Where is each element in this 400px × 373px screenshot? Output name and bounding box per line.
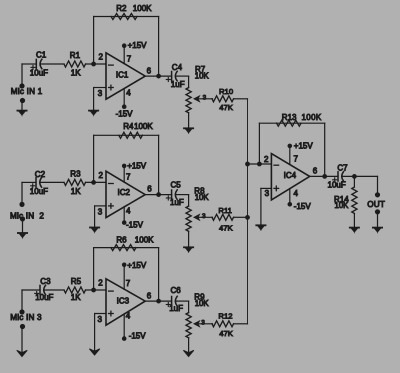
svg-text:7: 7	[127, 55, 132, 64]
svg-text:4: 4	[294, 189, 299, 198]
svg-text:R13: R13	[282, 113, 297, 122]
svg-text:1K: 1K	[71, 293, 81, 302]
svg-text:10K: 10K	[195, 193, 210, 202]
svg-text:3: 3	[201, 319, 205, 326]
svg-text:100K: 100K	[135, 235, 154, 244]
svg-text:47K: 47K	[219, 223, 234, 232]
svg-text:IC3: IC3	[117, 297, 130, 306]
svg-text:47K: 47K	[219, 329, 234, 338]
svg-text:R12: R12	[218, 312, 232, 321]
svg-text:IC1: IC1	[116, 71, 129, 80]
svg-text:10K: 10K	[335, 201, 350, 210]
svg-text:Mic IN 3: Mic IN 3	[10, 313, 42, 322]
svg-text:C4: C4	[172, 63, 183, 72]
svg-text:+15V: +15V	[127, 261, 147, 270]
svg-text:R2: R2	[116, 4, 127, 13]
svg-text:2: 2	[99, 53, 104, 62]
svg-text:C5: C5	[171, 180, 182, 189]
svg-text:10uF: 10uF	[30, 68, 48, 77]
svg-text:2: 2	[264, 155, 269, 164]
svg-text:IC2: IC2	[118, 188, 131, 197]
svg-text:100K: 100K	[133, 4, 152, 13]
svg-text:3: 3	[98, 315, 103, 324]
svg-text:-15V: -15V	[126, 221, 144, 230]
svg-text:IC4: IC4	[284, 171, 297, 180]
svg-text:C7: C7	[337, 163, 348, 172]
svg-text:-15V: -15V	[129, 332, 147, 341]
svg-text:R3: R3	[70, 170, 81, 179]
svg-text:1K: 1K	[71, 69, 81, 78]
svg-text:R11: R11	[218, 206, 232, 215]
svg-text:R6: R6	[116, 235, 127, 244]
svg-text:6: 6	[313, 167, 318, 176]
svg-text:3: 3	[203, 94, 207, 101]
svg-text:6: 6	[147, 292, 152, 301]
svg-text:1uF: 1uF	[171, 80, 185, 89]
svg-text:-15V: -15V	[294, 202, 312, 211]
svg-text:R1: R1	[70, 51, 81, 60]
svg-text:1uF: 1uF	[170, 198, 184, 207]
svg-text:C6: C6	[171, 286, 182, 295]
svg-text:3: 3	[98, 89, 103, 98]
svg-text:100K: 100K	[134, 122, 153, 131]
svg-text:C2: C2	[35, 170, 46, 179]
svg-text:+15V: +15V	[294, 141, 314, 150]
svg-text:4: 4	[126, 312, 131, 321]
svg-text:C3: C3	[40, 277, 51, 286]
svg-text:+15V: +15V	[128, 41, 148, 50]
svg-text:C1: C1	[36, 51, 47, 60]
svg-text:10uF: 10uF	[35, 293, 53, 302]
svg-text:100K: 100K	[302, 113, 322, 122]
svg-text:3: 3	[265, 189, 270, 198]
svg-text:3: 3	[98, 207, 103, 216]
svg-text:4: 4	[126, 207, 131, 216]
svg-text:+15V: +15V	[127, 161, 147, 170]
svg-text:Mic IN 2: Mic IN 2	[10, 211, 44, 220]
svg-text:47K: 47K	[219, 103, 234, 112]
svg-text:10K: 10K	[195, 299, 210, 308]
svg-text:R4: R4	[123, 122, 134, 131]
svg-text:R10: R10	[219, 87, 233, 96]
svg-text:Mic IN 1: Mic IN 1	[11, 87, 43, 96]
svg-text:-15V: -15V	[116, 110, 134, 119]
svg-text:1uF: 1uF	[169, 304, 183, 313]
svg-text:R5: R5	[71, 277, 82, 286]
svg-text:2: 2	[98, 278, 103, 287]
svg-text:10uF: 10uF	[328, 180, 346, 189]
svg-text:10uF: 10uF	[30, 187, 48, 196]
svg-text:7: 7	[294, 154, 299, 163]
svg-text:1K: 1K	[71, 187, 81, 196]
svg-text:4: 4	[126, 88, 131, 97]
svg-text:2: 2	[99, 171, 104, 180]
svg-text:7: 7	[126, 173, 131, 182]
svg-text:6: 6	[147, 185, 152, 194]
svg-text:10K: 10K	[195, 71, 210, 80]
svg-text:7: 7	[126, 279, 131, 288]
svg-text:OUT: OUT	[367, 200, 385, 209]
svg-text:3: 3	[202, 213, 206, 220]
svg-text:6: 6	[147, 67, 152, 76]
